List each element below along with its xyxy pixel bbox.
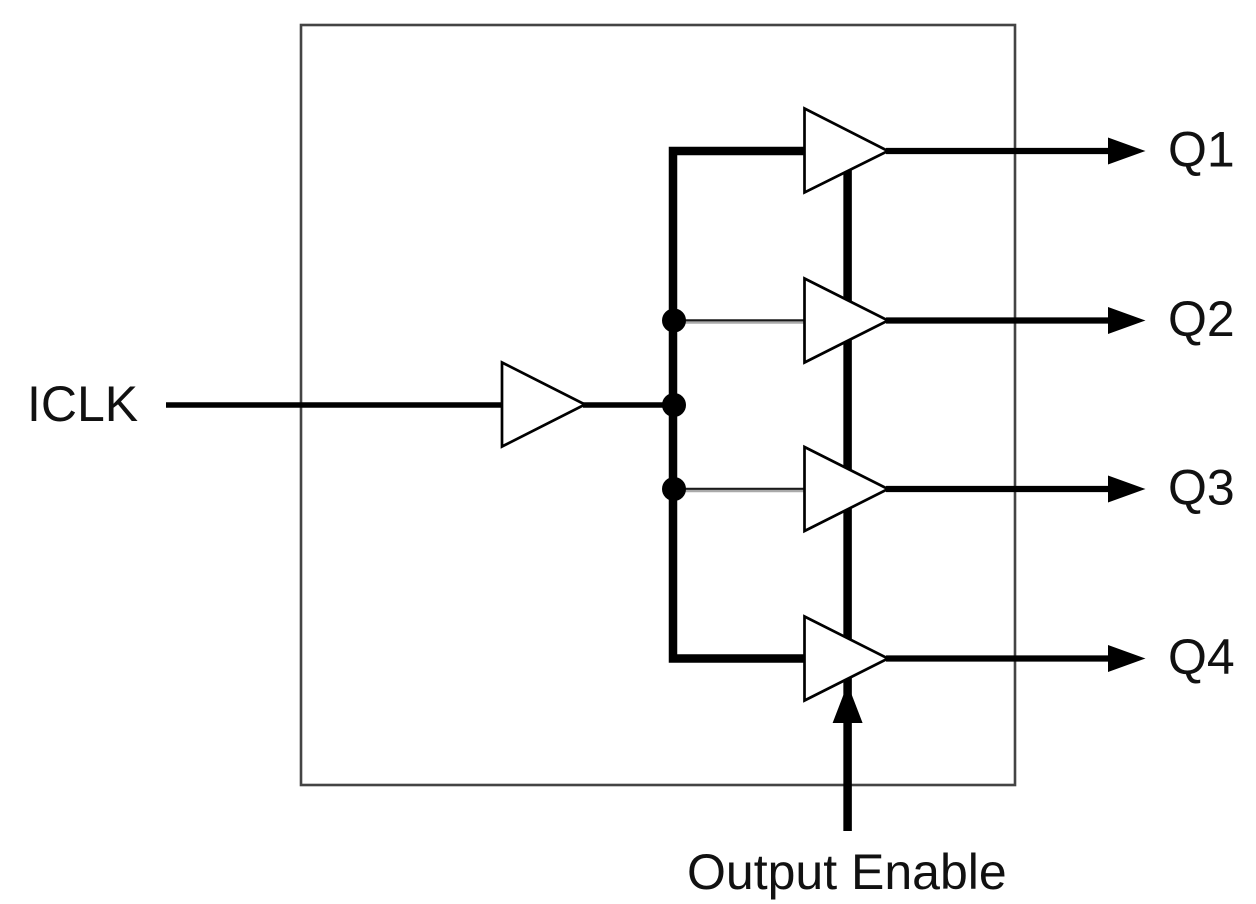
buffer U0 input	[502, 363, 585, 447]
junction dot node B	[662, 393, 686, 417]
wire tap to buffer U2	[674, 321, 805, 323]
arrowhead Q2	[1108, 307, 1146, 334]
buffer U2	[805, 279, 889, 363]
buffer U4	[805, 617, 889, 701]
junction dot node C	[662, 477, 686, 501]
svg-text:Q2: Q2	[1168, 291, 1235, 347]
svg-text:Output Enable: Output Enable	[687, 844, 1007, 900]
wire Output Enable line	[843, 155, 852, 831]
wire output Q2	[886, 317, 1112, 323]
buffer U1	[805, 109, 889, 193]
svg-text:ICLK: ICLK	[27, 376, 138, 432]
wire clock distribution bus	[673, 151, 805, 659]
wire ICLK input	[166, 402, 503, 408]
wire tap to buffer U3	[674, 490, 805, 492]
buffer U3	[805, 447, 889, 531]
wire output Q4	[886, 655, 1112, 661]
wire output Q1	[886, 148, 1112, 154]
wire output Q3	[886, 486, 1112, 492]
arrowhead Q3	[1108, 476, 1146, 503]
arrowhead Output Enable	[833, 684, 863, 723]
svg-text:Q3: Q3	[1168, 460, 1235, 516]
arrowhead Q1	[1108, 138, 1146, 165]
wire buffer output to bus	[583, 402, 675, 408]
svg-text:Q1: Q1	[1168, 122, 1235, 178]
arrowhead Q4	[1108, 645, 1146, 672]
junction dot node A	[662, 309, 686, 333]
svg-text:Q4: Q4	[1168, 629, 1235, 685]
device outline box	[301, 25, 1015, 785]
